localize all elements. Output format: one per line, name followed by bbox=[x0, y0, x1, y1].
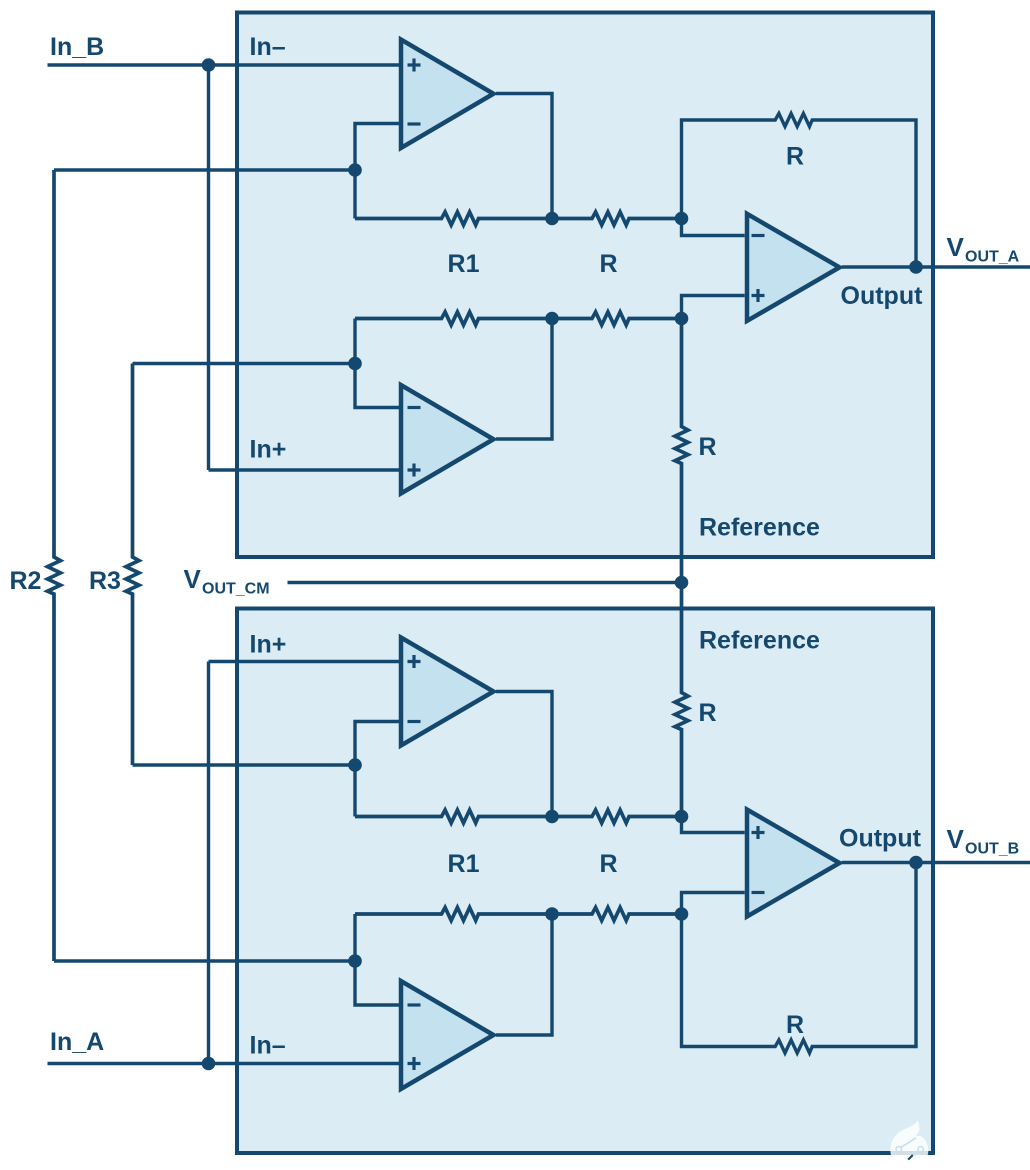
svg-text:OUT_CM: OUT_CM bbox=[202, 580, 270, 597]
svg-text:V: V bbox=[184, 564, 202, 594]
svg-text:In_A: In_A bbox=[50, 1028, 104, 1056]
svg-text:Reference: Reference bbox=[699, 627, 820, 655]
svg-text:R1: R1 bbox=[448, 250, 480, 278]
svg-text:In_B: In_B bbox=[50, 33, 104, 61]
svg-text:Output: Output bbox=[841, 282, 924, 310]
svg-text:In–: In– bbox=[250, 1032, 286, 1060]
svg-text:In–: In– bbox=[250, 33, 286, 61]
svg-text:Reference: Reference bbox=[699, 514, 820, 542]
svg-text:R1: R1 bbox=[448, 850, 480, 878]
svg-text:In+: In+ bbox=[250, 436, 287, 464]
svg-text:R3: R3 bbox=[89, 567, 121, 595]
svg-text:R: R bbox=[699, 699, 717, 727]
svg-text:R: R bbox=[599, 850, 617, 878]
svg-text:In+: In+ bbox=[250, 631, 287, 659]
svg-text:R: R bbox=[599, 250, 617, 278]
svg-text:R: R bbox=[786, 143, 804, 171]
svg-text:Output: Output bbox=[839, 825, 922, 853]
svg-text:R: R bbox=[699, 433, 717, 461]
svg-text:R2: R2 bbox=[10, 567, 42, 595]
svg-text:V: V bbox=[947, 824, 965, 854]
svg-text:OUT_A: OUT_A bbox=[965, 248, 1020, 265]
svg-text:R: R bbox=[786, 1011, 804, 1039]
svg-text:OUT_B: OUT_B bbox=[965, 840, 1019, 857]
svg-text:V: V bbox=[947, 232, 965, 262]
